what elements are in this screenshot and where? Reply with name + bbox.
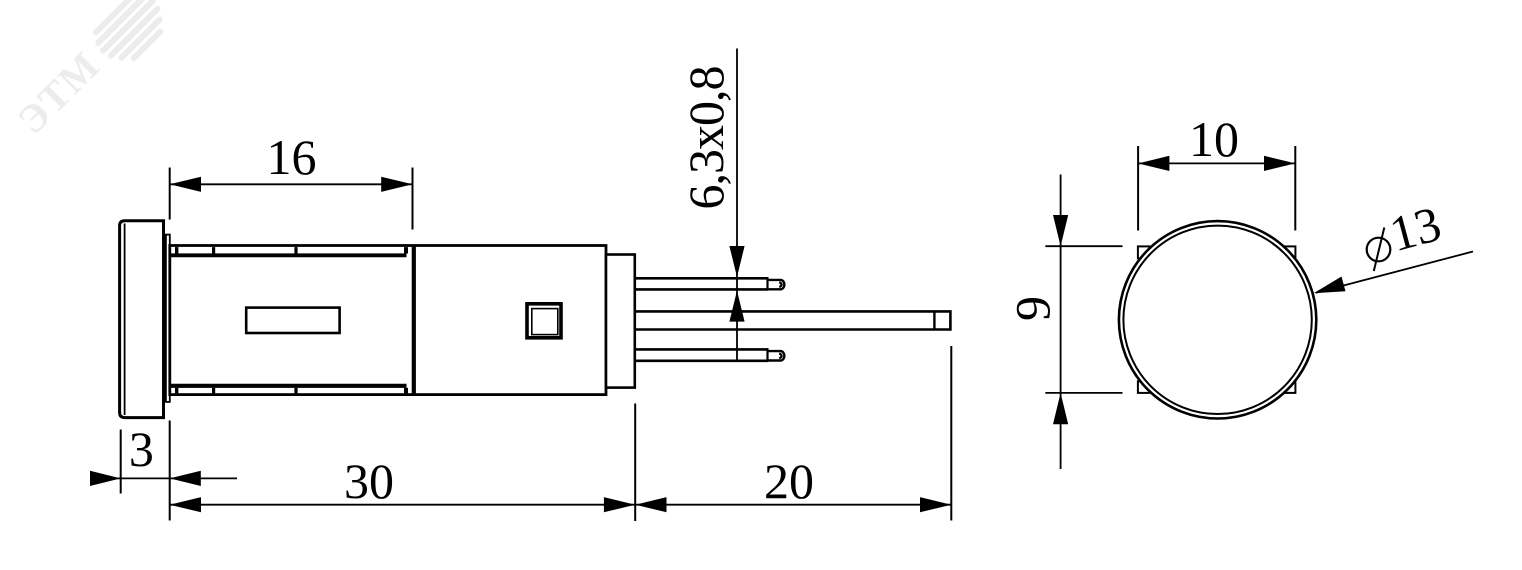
dimension 20	[635, 346, 951, 521]
svg-text:3: 3	[129, 421, 154, 477]
dimension 3	[90, 421, 237, 521]
flange (front bezel)	[120, 221, 164, 418]
bottom rim line	[170, 384, 407, 388]
LED window rectangle	[246, 308, 339, 333]
thread ticks bottom	[175, 388, 408, 394]
front view: inner circle	[1123, 226, 1311, 414]
watermark ЭТМ logo	[9, 0, 176, 142]
washer/gasket	[166, 235, 170, 402]
square detail outer	[527, 304, 561, 338]
svg-text:9: 9	[1005, 296, 1061, 321]
pin 3 (bottom)	[634, 348, 784, 362]
phi symbol	[1367, 228, 1391, 272]
svg-text:20: 20	[764, 453, 814, 509]
dimension 9	[1045, 175, 1122, 470]
body outline	[170, 246, 606, 395]
svg-text:10: 10	[1189, 111, 1239, 167]
leader Ø13	[1314, 252, 1473, 294]
dimension 6,3x0,8	[729, 49, 744, 363]
svg-text:16: 16	[267, 129, 317, 185]
dimension 30	[170, 497, 636, 512]
square detail inner	[532, 309, 558, 335]
section divider	[412, 246, 416, 395]
dimension 16	[170, 168, 413, 230]
svg-text:30: 30	[344, 453, 394, 509]
dimension 10	[1138, 146, 1295, 231]
pin 1 (top)	[634, 277, 784, 290]
top rim line	[170, 253, 407, 257]
pin 2 (middle, long)	[634, 310, 950, 331]
rear narrow section	[606, 255, 635, 388]
front view: outer circle	[1119, 221, 1316, 418]
front view: mounting tabs	[1138, 246, 1296, 393]
thread ticks top	[175, 247, 408, 253]
svg-text:6,3x0,8: 6,3x0,8	[678, 67, 734, 210]
flange inner contour line	[124, 224, 126, 416]
